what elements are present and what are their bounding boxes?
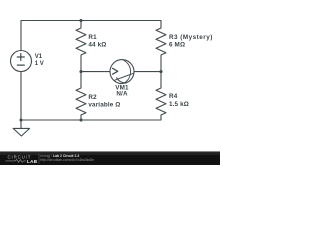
svg-text:R1: R1 xyxy=(88,34,97,41)
svg-text:44 kΩ: 44 kΩ xyxy=(88,42,106,49)
node junction ground xyxy=(19,118,22,121)
voltmeter VM1 xyxy=(110,60,134,84)
svg-text:V1: V1 xyxy=(35,54,43,60)
voltage source V1 xyxy=(11,51,32,72)
node junction R1 / R2 / voltmeter left xyxy=(79,70,82,73)
svg-text:6 MΩ: 6 MΩ xyxy=(169,42,185,49)
node junction R3 / R4 / voltmeter right xyxy=(159,70,162,73)
svg-text:R3 (Mystery): R3 (Mystery) xyxy=(169,34,213,41)
svg-text:R4: R4 xyxy=(169,93,178,100)
resistor R2 xyxy=(76,72,86,120)
resistor R1 xyxy=(76,21,86,72)
resistor R3 xyxy=(156,28,166,72)
wire voltmeter left lead xyxy=(81,71,110,73)
resistor R4 xyxy=(156,72,166,115)
svg-text:variable Ω: variable Ω xyxy=(88,102,120,109)
svg-text:http://circuitlab.com/c6x7s4ba: http://circuitlab.com/c6x7s4ba3kd5e xyxy=(40,158,94,162)
node junction bottom rail / R2 xyxy=(79,118,82,121)
node junction top rail / R1 xyxy=(79,19,82,22)
wire bottom rail from ground to R4 xyxy=(21,72,161,121)
footer CircuitLab logo xyxy=(6,154,40,164)
svg-text:1 V: 1 V xyxy=(35,61,44,67)
svg-text:1.5 kΩ: 1.5 kΩ xyxy=(169,101,189,108)
svg-text:LAB: LAB xyxy=(27,159,38,164)
footer bar xyxy=(0,151,220,165)
wire voltmeter right lead xyxy=(134,71,161,73)
ground xyxy=(13,120,30,136)
wire top rail from V1 to R3 xyxy=(21,21,161,51)
svg-text:R2: R2 xyxy=(88,94,97,101)
svg-text:N/A: N/A xyxy=(116,91,128,98)
